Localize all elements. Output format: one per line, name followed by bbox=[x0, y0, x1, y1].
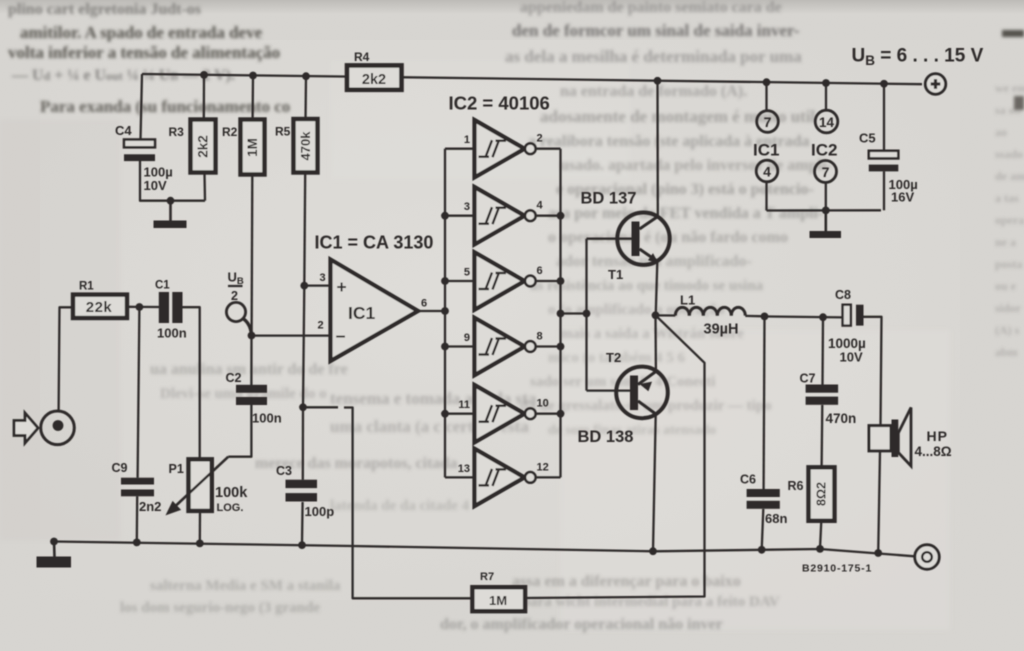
node: amplifier output junction bbox=[652, 311, 660, 319]
inductor L1 39µH bbox=[656, 293, 765, 338]
svg-text:LOG.: LOG. bbox=[217, 502, 244, 514]
label IC1 = CA 3130 bbox=[315, 233, 434, 253]
svg-text:68n: 68n bbox=[765, 511, 787, 526]
capacitor C2 bbox=[226, 371, 282, 426]
svg-text:HP: HP bbox=[927, 428, 948, 444]
svg-text:+: + bbox=[337, 277, 347, 297]
inverter U2c pins 5-6 bbox=[445, 252, 561, 309]
capacitor C5 (electrolytic) bbox=[859, 84, 918, 211]
node: output bus junction bbox=[557, 277, 565, 285]
svg-text:4: 4 bbox=[763, 163, 771, 179]
svg-text:10V: 10V bbox=[144, 178, 167, 193]
node: R1/C1/C9 junction bbox=[136, 303, 144, 311]
svg-text:na entrada de formado (A).: na entrada de formado (A). bbox=[560, 83, 747, 100]
svg-text:100k: 100k bbox=[215, 485, 248, 501]
svg-text:C7: C7 bbox=[800, 372, 816, 386]
node: C7 junction bbox=[819, 313, 827, 321]
svg-text:P1: P1 bbox=[169, 462, 184, 476]
node: L1 right / C6 junction bbox=[761, 313, 769, 321]
wire: node to op-amp pin 2 bbox=[252, 334, 331, 336]
node: rail-input ground bbox=[50, 538, 58, 546]
svg-text:10V: 10V bbox=[840, 350, 863, 365]
node: R2/C2/pin2 junction bbox=[248, 332, 256, 340]
svg-text:100n: 100n bbox=[157, 326, 187, 341]
svg-text:3: 3 bbox=[464, 201, 470, 213]
wire: R7 to output node bbox=[525, 315, 704, 598]
svg-text:R5: R5 bbox=[275, 125, 291, 139]
svg-text:2n2: 2n2 bbox=[139, 499, 161, 514]
wire: power pins to C5 ground link bbox=[767, 209, 882, 211]
IC1 power pin 7 circle bbox=[757, 82, 779, 132]
wire: L1 node to C8 bbox=[765, 316, 843, 317]
wire: T2 base lead bbox=[587, 389, 632, 391]
node: rail-C3 bbox=[298, 541, 306, 549]
svg-text:ou e: ou e bbox=[995, 279, 1017, 293]
capacitor C6 bbox=[740, 473, 787, 527]
svg-text:IC2: IC2 bbox=[811, 141, 837, 160]
svg-text:2: 2 bbox=[318, 320, 324, 332]
wire: C3 column bbox=[302, 407, 303, 543]
svg-text:10: 10 bbox=[537, 398, 549, 410]
svg-text:los dom segurio-nego (3 gr: los dom segurio-nego (3 grande bbox=[120, 600, 320, 616]
wire: output bus to base column bbox=[561, 312, 587, 314]
node: rail-IC2 pin14 junction bbox=[822, 79, 830, 87]
svg-text:B2910-175-1: B2910-175-1 bbox=[802, 563, 872, 575]
terminal: 0V bbox=[915, 545, 939, 569]
resistor R3 bbox=[169, 75, 216, 173]
wire: C1 to P1 top bbox=[183, 307, 200, 459]
svg-text:ua anulina sm antir do de: ua anulina sm antir do de fre bbox=[150, 361, 348, 378]
svg-text:12: 12 bbox=[537, 461, 549, 473]
svg-text:C6: C6 bbox=[740, 473, 756, 487]
svg-text:470k: 470k bbox=[298, 131, 313, 161]
svg-text:IC1: IC1 bbox=[753, 141, 779, 160]
svg-text:11: 11 bbox=[458, 399, 470, 411]
svg-text:IC1 = CA 3130: IC1 = CA 3130 bbox=[315, 233, 434, 253]
node: input bus junction bbox=[441, 277, 449, 285]
capacitor C7 bbox=[800, 372, 857, 427]
inverter U2d pins 9-8 bbox=[445, 318, 561, 375]
wire: C2 top to node bbox=[250, 336, 252, 386]
svg-text:L1: L1 bbox=[680, 293, 695, 308]
node: rail-T1 collector junction bbox=[654, 77, 662, 85]
node: ground stem junction bbox=[822, 207, 830, 215]
node: rail-P1 bbox=[196, 540, 204, 548]
svg-text:R2: R2 bbox=[222, 125, 238, 139]
svg-text:2: 2 bbox=[231, 289, 238, 303]
node: base column junction bbox=[583, 310, 591, 318]
svg-text:posta: posta bbox=[995, 257, 1022, 271]
wire: R2 to inverting node bbox=[250, 176, 253, 336]
ground (C4/R3) bbox=[154, 201, 187, 228]
svg-text:ao: ao bbox=[995, 125, 1007, 139]
input arrow symbol bbox=[14, 413, 38, 443]
node: pin3 junction bbox=[300, 282, 308, 290]
wire: inverter input bus bbox=[444, 149, 446, 478]
label B2910-175-1 bbox=[802, 563, 872, 575]
transistor T2 BD138 (PNP) bbox=[616, 367, 668, 419]
svg-text:1: 1 bbox=[464, 134, 470, 146]
svg-text:as resistência ao que timo: as resistência ao que timodo se usina bbox=[530, 278, 764, 294]
wire: op-amp output pin 6 bbox=[418, 298, 445, 312]
wire: C8 to speaker bbox=[864, 317, 882, 426]
svg-text:R7: R7 bbox=[480, 571, 494, 583]
node: output bus to drivers bbox=[557, 310, 565, 318]
wire: C9 column bbox=[137, 307, 140, 542]
inverter U2f pins 13-12 bbox=[445, 449, 561, 506]
svg-text:appeniedam de painto semiat: appeniedam de painto semiato cara de bbox=[520, 0, 782, 16]
wire: C4 to ground node bbox=[140, 161, 205, 201]
wire: speaker to ground rail bbox=[878, 451, 880, 553]
svg-text:salterna Media e SM a sta: salterna Media e SM a stanila bbox=[150, 578, 341, 594]
wiper arrow of P1 bbox=[167, 405, 252, 515]
svg-text:a tas: a tas bbox=[995, 191, 1019, 205]
svg-text:470n: 470n bbox=[826, 411, 857, 426]
svg-text:ne a: ne a bbox=[995, 235, 1016, 249]
label T1 bbox=[608, 267, 623, 282]
svg-text:R3: R3 bbox=[169, 125, 185, 139]
svg-text:8Ω2: 8Ω2 bbox=[815, 482, 829, 506]
ground (IC supply) bbox=[810, 210, 842, 238]
svg-text:IC2 = 40106: IC2 = 40106 bbox=[449, 93, 550, 114]
wire: R5 column continues to feedback node bbox=[303, 286, 304, 408]
resistor R5 bbox=[275, 76, 318, 172]
svg-text:9: 9 bbox=[464, 332, 470, 344]
wire: T2 emitter to output node bbox=[654, 315, 657, 370]
capacitor C8 (electrolytic) bbox=[828, 288, 866, 365]
wire: inverter output bus bbox=[559, 149, 561, 478]
terminal: signal input bbox=[41, 411, 75, 445]
node: input bus junction bbox=[441, 212, 449, 220]
wire: input to R1 bbox=[59, 307, 73, 411]
node: feedback/C3 junction bbox=[299, 403, 307, 411]
svg-text:5: 5 bbox=[464, 267, 470, 279]
wire: +V supply rail bbox=[142, 74, 922, 84]
resistor R7 bbox=[472, 571, 525, 611]
op-amp IC1 bbox=[331, 260, 419, 362]
svg-text:13: 13 bbox=[458, 463, 470, 475]
IC2 power pin 7 circle bbox=[815, 161, 837, 211]
svg-text:39µH: 39µH bbox=[704, 322, 739, 338]
node: rail-R6 bbox=[816, 545, 824, 553]
label IC2 = 40106 bbox=[449, 93, 550, 114]
svg-text:1M: 1M bbox=[489, 593, 507, 608]
node: rail-R3 junction bbox=[200, 71, 208, 79]
svg-text:R6: R6 bbox=[788, 479, 804, 493]
node: C4/R3 ground junction bbox=[167, 197, 175, 205]
svg-text:1M: 1M bbox=[245, 138, 260, 157]
pin label 3 bbox=[320, 272, 326, 284]
wire: T1 base lead bbox=[587, 238, 633, 240]
pin label 2 bbox=[318, 320, 324, 332]
svg-text:2: 2 bbox=[537, 133, 543, 145]
loudspeaker HP bbox=[869, 408, 952, 467]
svg-text:R1: R1 bbox=[79, 281, 94, 293]
svg-text:6: 6 bbox=[537, 265, 543, 277]
svg-text:we em: we em bbox=[995, 81, 1024, 95]
svg-text:BD 137: BD 137 bbox=[581, 190, 637, 208]
svg-text:2k2: 2k2 bbox=[362, 72, 386, 88]
svg-text:abm: abm bbox=[995, 345, 1018, 359]
svg-text:dor, o amplificador operaci: dor, o amplificador operacional não inve… bbox=[440, 616, 723, 633]
svg-text:16V: 16V bbox=[891, 190, 914, 205]
node: rail-R2 junction bbox=[249, 72, 257, 80]
IC2 power pin 14 circle bbox=[815, 83, 838, 133]
svg-text:plino cart elgretonia Judt-: plino cart elgretonia Judt-os bbox=[8, 1, 201, 18]
node: input bus from IC1 bbox=[441, 307, 449, 315]
label BD 138 bbox=[578, 428, 634, 446]
UB/2 test point bbox=[226, 270, 251, 336]
svg-text:3: 3 bbox=[320, 272, 326, 284]
node: rail-T2 collector bbox=[649, 547, 657, 555]
inverter U2a pins 1-2 bbox=[445, 120, 561, 177]
capacitor C1 bbox=[155, 280, 187, 341]
wire: T1 collector to rail bbox=[656, 81, 659, 216]
svg-text:C1: C1 bbox=[155, 280, 170, 292]
svg-text:as dela a mesilha é deter: as dela a mesilha é determinada por uma bbox=[505, 47, 802, 66]
svg-text:C4: C4 bbox=[115, 123, 132, 138]
wire: C6 column bbox=[762, 316, 765, 549]
terminal: +UB supply bbox=[925, 74, 945, 94]
node: rail-IC1 pin7 junction bbox=[763, 78, 771, 86]
edge mark bbox=[1002, 30, 1024, 110]
svg-text:C3: C3 bbox=[276, 464, 292, 478]
node: input bus junction bbox=[441, 343, 449, 351]
svg-text:assa em a diferençar para: assa em a diferençar para o baixo bbox=[512, 573, 741, 590]
svg-text:C2: C2 bbox=[226, 371, 242, 385]
label IC2 (power) bbox=[811, 141, 837, 160]
node: rail-R5 junction bbox=[302, 72, 310, 80]
label UB = 6...15V bbox=[852, 46, 984, 69]
svg-text:8: 8 bbox=[537, 331, 543, 343]
svg-text:C8: C8 bbox=[835, 288, 851, 302]
svg-text:volta inferior a tensão de a: volta inferior a tensão de alimentação bbox=[8, 43, 280, 62]
node: rail-speaker bbox=[874, 549, 882, 557]
wire: rail to C4 bbox=[141, 74, 143, 140]
svg-text:den de formcor um sinal d: den de formcor um sinal de saida inver- bbox=[512, 21, 800, 40]
wire: T2 collector to ground rail bbox=[653, 415, 656, 551]
wire: R1 to C1 bbox=[127, 306, 159, 309]
svg-text:6: 6 bbox=[421, 298, 427, 310]
svg-text:R4: R4 bbox=[354, 50, 370, 64]
label BD 137 bbox=[581, 190, 637, 208]
node: rail-C5 junction bbox=[880, 80, 888, 88]
svg-text:de ami: de ami bbox=[995, 169, 1024, 183]
svg-text:usado. apartada pelo invers: usado. apartada pelo inversor de ampli- bbox=[560, 157, 832, 174]
svg-text:latenda de da citade 4: latenda de da citade 4 bbox=[330, 498, 470, 514]
wire: pin3 lead bbox=[304, 284, 330, 286]
inverter U2e pins 11-10 bbox=[445, 385, 561, 442]
svg-text:adosamente de montagem é m: adosamente de montagem é muito util bbox=[540, 107, 816, 126]
svg-text:C9: C9 bbox=[112, 461, 128, 475]
svg-text:opera: opera bbox=[995, 213, 1024, 227]
wire: R5 to pin3 bbox=[303, 173, 306, 286]
node: rail-C6 bbox=[758, 546, 766, 554]
svg-text:7: 7 bbox=[822, 164, 830, 180]
resistor R2 bbox=[222, 76, 265, 175]
node: output bus junction bbox=[557, 343, 565, 351]
svg-text:sidor: sidor bbox=[995, 301, 1022, 315]
wire: P1 bottom to ground rail bbox=[199, 511, 201, 543]
wire: C7/R6 column bbox=[820, 317, 823, 549]
svg-text:22k: 22k bbox=[86, 299, 113, 316]
svg-text:o (o amplificado a operaçã: o (o amplificado a operação bbox=[548, 302, 725, 318]
svg-text:2k2: 2k2 bbox=[196, 135, 211, 158]
svg-text:asa por meio do FET vendi: asa por meio do FET vendida a T ampli- bbox=[548, 205, 823, 222]
svg-text:BD 138: BD 138 bbox=[578, 428, 634, 446]
svg-text:amitilor. A spado de entrada: amitilor. A spado de entrada deve bbox=[20, 23, 263, 42]
inverter U2b pins 3-4 bbox=[445, 187, 561, 244]
node: output bus junction bbox=[557, 410, 565, 418]
wire: ground rail bbox=[54, 542, 915, 557]
resistor R1 bbox=[73, 281, 127, 319]
ground (input) bbox=[37, 542, 72, 568]
capacitor C9 bbox=[112, 461, 162, 514]
svg-text:14: 14 bbox=[819, 115, 835, 130]
label IC1 (power) bbox=[753, 141, 779, 160]
label T2 bbox=[606, 350, 621, 365]
wire: T1 emitter to output node bbox=[656, 263, 658, 316]
resistor R6 bbox=[788, 467, 835, 521]
node: input bus junction bbox=[441, 410, 449, 418]
resistor R4 bbox=[347, 50, 402, 90]
svg-text:4: 4 bbox=[537, 200, 544, 212]
svg-text:T1: T1 bbox=[608, 267, 623, 282]
svg-text:4...8Ω: 4...8Ω bbox=[915, 444, 952, 459]
node: output bus junction bbox=[557, 212, 565, 220]
svg-text:−: − bbox=[336, 327, 346, 347]
wire: node to R7 (down) bbox=[303, 407, 472, 598]
svg-text:C5: C5 bbox=[859, 131, 876, 146]
svg-text:(A) s: (A) s bbox=[995, 323, 1020, 337]
node: rail-C9 bbox=[133, 539, 141, 547]
wire: R3 bottom to ground node bbox=[203, 174, 206, 201]
svg-text:IC1: IC1 bbox=[348, 303, 376, 323]
svg-text:100n: 100n bbox=[252, 411, 282, 426]
potentiometer P1 bbox=[169, 459, 249, 514]
capacitor C3 bbox=[276, 464, 334, 519]
transistor T1 BD137 (NPN) bbox=[617, 213, 669, 265]
svg-text:7: 7 bbox=[764, 114, 772, 130]
wire: base column bbox=[585, 239, 587, 391]
IC1 power pin 4 circle bbox=[756, 160, 778, 210]
capacitor C4 (electrolytic) bbox=[115, 123, 173, 193]
svg-text:ssado: ssado bbox=[995, 147, 1023, 161]
svg-text:100p: 100p bbox=[305, 504, 335, 519]
svg-text:T2: T2 bbox=[606, 350, 621, 365]
